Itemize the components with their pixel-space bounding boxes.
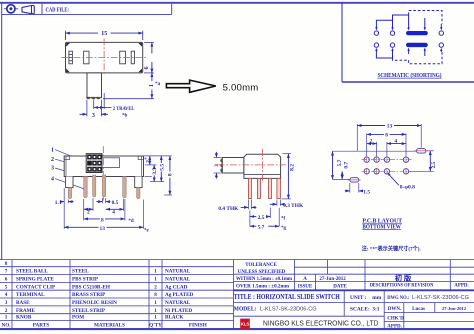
svg-text:4: 4 — [394, 138, 397, 144]
BOM row 3 base — [5, 300, 191, 306]
dimension 2 TRAVEL — [94, 106, 135, 119]
dimension 6 with extension lines — [144, 42, 154, 73]
svg-text:1: 1 — [154, 277, 157, 283]
svg-text:3: 3 — [51, 166, 54, 172]
front view right dims: ext lines — [144, 156, 173, 195]
top view body — [66, 42, 143, 73]
schematic caption — [378, 72, 442, 79]
dimension 1.1 — [55, 200, 74, 206]
dimension 0.5 — [96, 200, 118, 206]
front view inner cavity — [102, 158, 120, 168]
side view knob — [220, 158, 244, 174]
border frame left — [1, 3, 3, 260]
dimension 3 side — [214, 152, 222, 179]
svg-text:UNIT :: UNIT : — [350, 295, 367, 301]
svg-text:8: 8 — [154, 292, 157, 298]
projection symbol: truncated cone (side view) — [22, 6, 34, 14]
pcb dimension 2.5 — [430, 151, 437, 172]
svg-text:8: 8 — [101, 217, 104, 223]
svg-text:0.4 THK: 0.4 THK — [218, 206, 239, 212]
svg-text:*e: *e — [144, 229, 150, 234]
svg-text:NATURAL: NATURAL — [165, 300, 191, 306]
dimension 15 — [66, 31, 143, 37]
svg-text:DESCRIPTIONS OF REVISION: DESCRIPTIONS OF REVISION — [370, 284, 434, 289]
svg-text:2 TRAVEL: 2 TRAVEL — [113, 106, 135, 112]
dimension 1 *a — [103, 73, 161, 99]
svg-text:SPRING PLATE: SPRING PLATE — [16, 277, 54, 283]
border frame top — [0, 2, 474, 4]
KLS logo — [240, 319, 250, 329]
schematic dashed box top — [409, 11, 442, 25]
front view body frame — [64, 156, 143, 177]
svg-text:4: 4 — [51, 177, 54, 183]
svg-text:WITHIN 1.5mm : ±0.1mm: WITHIN 1.5mm : ±0.1mm — [236, 277, 293, 282]
dimension 8.2 — [282, 154, 296, 199]
svg-text:CONTACT CLIP: CONTACT CLIP — [16, 284, 56, 290]
BOM row 4 terminal — [5, 292, 194, 298]
dimension 0.3 THK — [270, 200, 304, 209]
front view knob grid — [86, 154, 102, 173]
CAD FILE header bar — [2, 4, 172, 15]
dimension 5.7 *g — [250, 208, 287, 231]
note chinese — [362, 244, 422, 252]
top view centerline horizontal — [61, 57, 147, 59]
svg-text:0.7: 0.7 — [344, 162, 350, 169]
svg-text:3:1: 3:1 — [372, 307, 379, 313]
svg-text:*g: *g — [281, 226, 287, 231]
svg-text:NATURAL: NATURAL — [165, 277, 191, 283]
svg-text:TITLE : HORIZONTAL SLIDE SWITC: TITLE : HORIZONTAL SLIDE SWITCH — [234, 293, 340, 301]
CAD FILE: label — [46, 7, 70, 14]
svg-text:2: 2 — [5, 308, 8, 314]
svg-text:APPD.: APPD. — [387, 325, 402, 330]
svg-text:2: 2 — [369, 138, 372, 144]
svg-text:APPD.: APPD. — [454, 284, 469, 289]
svg-text:Lucas: Lucas — [412, 307, 425, 312]
svg-text:SCHEMATIC (SHORTING): SCHEMATIC (SHORTING) — [378, 72, 442, 79]
dimension 2.5 *f — [250, 208, 286, 227]
dimension 8 right — [168, 156, 174, 195]
border frame bottom — [0, 328, 474, 330]
BOM table grid — [0, 260, 474, 329]
svg-text:NATURAL: NATURAL — [165, 269, 191, 275]
svg-text:OVER 1.5mm : ±0.2mm: OVER 1.5mm : ±0.2mm — [236, 284, 290, 289]
pcb dimension 5.7 — [333, 151, 343, 179]
schematic shorting bar row 2 — [406, 43, 428, 47]
pcb label 8-dia0.8 — [387, 173, 415, 191]
svg-text:BRASS STRIP: BRASS STRIP — [72, 292, 106, 298]
TOP VIEW — [66, 31, 143, 40]
svg-text:BLACK: BLACK — [165, 315, 183, 321]
pcb dimension 1.5 — [345, 189, 371, 195]
schematic box border — [342, 3, 474, 82]
drawn/checked rows — [387, 306, 467, 330]
svg-text:*f: *f — [281, 216, 286, 221]
top view contact slots — [69, 51, 135, 64]
svg-text:CHK'D: CHK'D — [387, 317, 404, 322]
svg-text:ISSUE: ISSUE — [298, 284, 313, 289]
dimension 4 — [106, 209, 124, 215]
svg-text:1.5: 1.5 — [363, 189, 370, 195]
pcb pads row 2 — [364, 169, 409, 174]
top view centerline vertical — [103, 39, 105, 75]
schematic pole contacts row 2 — [374, 43, 443, 47]
svg-text:PARTS: PARTS — [33, 323, 50, 329]
svg-text:L-KLS7-SK-23D06-CG: L-KLS7-SK-23D06-CG — [260, 306, 317, 312]
top view extension lines for 15 — [65, 31, 67, 40]
svg-text:SCALE:: SCALE: — [350, 307, 370, 313]
top view corner tabs — [66, 43, 142, 72]
svg-text:A: A — [303, 277, 307, 282]
tolerance box text — [236, 263, 347, 289]
pcb caption — [362, 218, 403, 231]
svg-text:FINISH: FINISH — [189, 323, 207, 329]
side view pins — [248, 178, 280, 198]
svg-text:2: 2 — [51, 157, 54, 163]
BOM footer row — [1, 323, 206, 329]
svg-text:2: 2 — [87, 209, 90, 215]
top view stem centerline — [93, 73, 95, 100]
dimension 8 *d — [84, 217, 134, 224]
svg-text:注: “*”表示关键尺寸(7个).: 注: “*”表示关键尺寸(7个). — [362, 244, 422, 252]
dimension 2 *c — [144, 156, 151, 165]
BOM row 1 knob — [5, 315, 184, 321]
pcb dimension 13 — [357, 124, 421, 130]
projection symbol: circle (front view) — [4, 5, 18, 13]
svg-text:4: 4 — [112, 209, 115, 215]
pcb slot pad left — [348, 178, 361, 182]
svg-text:MODEL:: MODEL: — [234, 306, 256, 313]
svg-text:PBS STRIP: PBS STRIP — [72, 277, 99, 283]
svg-text:PBS C5210R-EH: PBS C5210R-EH — [72, 284, 110, 290]
svg-text:13: 13 — [100, 226, 106, 232]
svg-text:3.5: 3.5 — [152, 168, 158, 175]
schematic dashed box bottom — [393, 52, 443, 64]
svg-text:MATERIALS: MATERIALS — [94, 323, 125, 329]
svg-text:8: 8 — [385, 133, 388, 139]
svg-text:Q'TY: Q'TY — [149, 323, 162, 329]
svg-text:5.5: 5.5 — [159, 164, 165, 171]
svg-text:Ni PLATED: Ni PLATED — [165, 308, 192, 314]
front view centerline vertical — [102, 146, 104, 201]
svg-text:L-KLS7-SK-23D06-CG: L-KLS7-SK-23D06-CG — [412, 295, 469, 301]
pcb dimension 0.7 — [342, 162, 349, 180]
svg-text:UNLESS SPECIFIED: UNLESS SPECIFIED — [238, 270, 286, 275]
svg-text:STEEL BALL: STEEL BALL — [16, 269, 48, 275]
svg-text:1: 1 — [5, 315, 8, 321]
svg-text:BASE: BASE — [16, 300, 30, 306]
front view mounting posts — [66, 177, 143, 188]
svg-text:0.3 THK: 0.3 THK — [283, 203, 304, 209]
BOM row 8 — [5, 261, 8, 267]
svg-text:1: 1 — [154, 308, 157, 314]
svg-text:*d: *d — [128, 219, 134, 224]
side view centerline vertical — [262, 149, 264, 183]
svg-text:3: 3 — [5, 300, 8, 306]
svg-text:1: 1 — [154, 300, 157, 306]
schematic pole contacts row 1 — [374, 31, 443, 35]
dimension 3.5 — [152, 165, 158, 182]
svg-text:6: 6 — [144, 67, 150, 70]
svg-text:*a: *a — [155, 81, 161, 87]
svg-text:FRAME: FRAME — [16, 308, 36, 314]
dimension 5.5 — [159, 156, 165, 182]
BOM row 5 contact clip — [5, 284, 188, 290]
svg-text:mm: mm — [372, 295, 381, 301]
svg-text:3: 3 — [214, 164, 220, 167]
svg-text:5: 5 — [5, 284, 8, 290]
title block grid — [234, 260, 474, 329]
schematic bottom wires solid — [376, 50, 441, 58]
BOM row 7 steel ball — [5, 269, 191, 275]
pcb ext lines — [333, 124, 434, 193]
svg-text:6: 6 — [5, 277, 8, 283]
svg-text:初 版: 初 版 — [395, 273, 412, 283]
svg-text:NO.: NO. — [1, 323, 11, 329]
svg-text:BOTTOM VIEW: BOTTOM VIEW — [362, 223, 401, 230]
top view stem serration scallops — [86, 97, 100, 99]
svg-text:15: 15 — [101, 31, 107, 37]
svg-text:8: 8 — [168, 173, 174, 176]
svg-text:8: 8 — [5, 261, 8, 267]
front view leader lines — [55, 150, 87, 190]
svg-text:DWG NO.:: DWG NO.: — [387, 295, 409, 301]
svg-text:5.00mm: 5.00mm — [223, 83, 259, 94]
svg-text:8.2: 8.2 — [290, 164, 296, 171]
svg-text:STEEL: STEEL — [72, 269, 89, 275]
svg-text:13: 13 — [387, 124, 393, 130]
pcb dimension 8 — [367, 133, 406, 139]
schematic bottom arrowheads — [375, 48, 442, 51]
title row — [234, 293, 469, 301]
svg-text:KLS: KLS — [241, 321, 250, 326]
dimension 13 *e — [64, 226, 149, 234]
svg-text:5.7: 5.7 — [337, 159, 343, 166]
svg-text:Ag PLATED: Ag PLATED — [165, 292, 194, 298]
svg-text:0.5: 0.5 — [112, 200, 119, 206]
pcb dimension 2 — [367, 138, 377, 144]
svg-text:KNOB: KNOB — [16, 315, 32, 321]
pcb dimension 4 — [387, 138, 406, 144]
svg-text:1: 1 — [51, 148, 54, 154]
svg-text:Ag CLAD: Ag CLAD — [165, 284, 188, 290]
svg-text:2.5: 2.5 — [258, 215, 265, 221]
svg-text:TERMINAL: TERMINAL — [16, 292, 45, 298]
BOM row 2 frame — [5, 308, 193, 314]
callout arrow 5.00mm — [166, 80, 258, 94]
svg-text:1.1: 1.1 — [55, 200, 62, 206]
svg-text:1: 1 — [154, 315, 157, 321]
svg-text:DWN.: DWN. — [388, 307, 402, 312]
schematic top wires solid — [376, 15, 441, 28]
top view knob stem — [87, 73, 102, 98]
svg-text:4: 4 — [5, 292, 8, 298]
side view body — [244, 154, 281, 178]
svg-text:TOLERANCE: TOLERANCE — [245, 263, 277, 268]
model row — [234, 306, 380, 313]
svg-text:27-Jun-2012: 27-Jun-2012 — [442, 306, 467, 311]
svg-text:NINGBO KLS ELECTRONIC CO., LTD: NINGBO KLS ELECTRONIC CO., LTD — [263, 319, 379, 328]
BOM row 6 spring plate — [5, 277, 191, 283]
dimension 3 — [80, 93, 109, 119]
schematic shorting bar row 1 — [406, 31, 428, 35]
svg-text:*b: *b — [122, 113, 128, 119]
svg-text:DATE: DATE — [333, 284, 347, 289]
revision area text — [370, 273, 470, 289]
pcb pad centerlines red — [362, 157, 412, 175]
svg-text:3: 3 — [92, 113, 95, 119]
dimension 0.4 THK — [218, 200, 256, 213]
svg-text:1: 1 — [149, 84, 155, 87]
front view bottom dim extension lines — [64, 188, 143, 229]
svg-text:1: 1 — [154, 269, 157, 275]
company name — [263, 319, 379, 328]
svg-text:5.7: 5.7 — [258, 225, 265, 231]
pcb slot pad right — [415, 149, 428, 154]
front view part labels 1-4 — [51, 148, 54, 183]
svg-text:CAD FILE:: CAD FILE: — [46, 7, 70, 14]
svg-text:8-φ0.8: 8-φ0.8 — [400, 184, 415, 190]
schematic top arrowheads — [375, 27, 442, 30]
front view terminal pins — [68, 175, 140, 199]
svg-text:POM: POM — [72, 315, 84, 321]
svg-text:2: 2 — [154, 284, 157, 290]
pcb pads row 1 — [364, 157, 409, 162]
svg-text:PHENOLIC RESIN: PHENOLIC RESIN — [72, 300, 117, 306]
svg-text:STEEL STRIP: STEEL STRIP — [72, 308, 106, 314]
svg-text:2.5: 2.5 — [431, 161, 437, 168]
svg-text:27-Jun-2012: 27-Jun-2012 — [319, 277, 346, 282]
svg-text:7: 7 — [5, 269, 8, 275]
dimension 2 — [84, 209, 93, 215]
side view centerline horizontal — [218, 164, 287, 166]
